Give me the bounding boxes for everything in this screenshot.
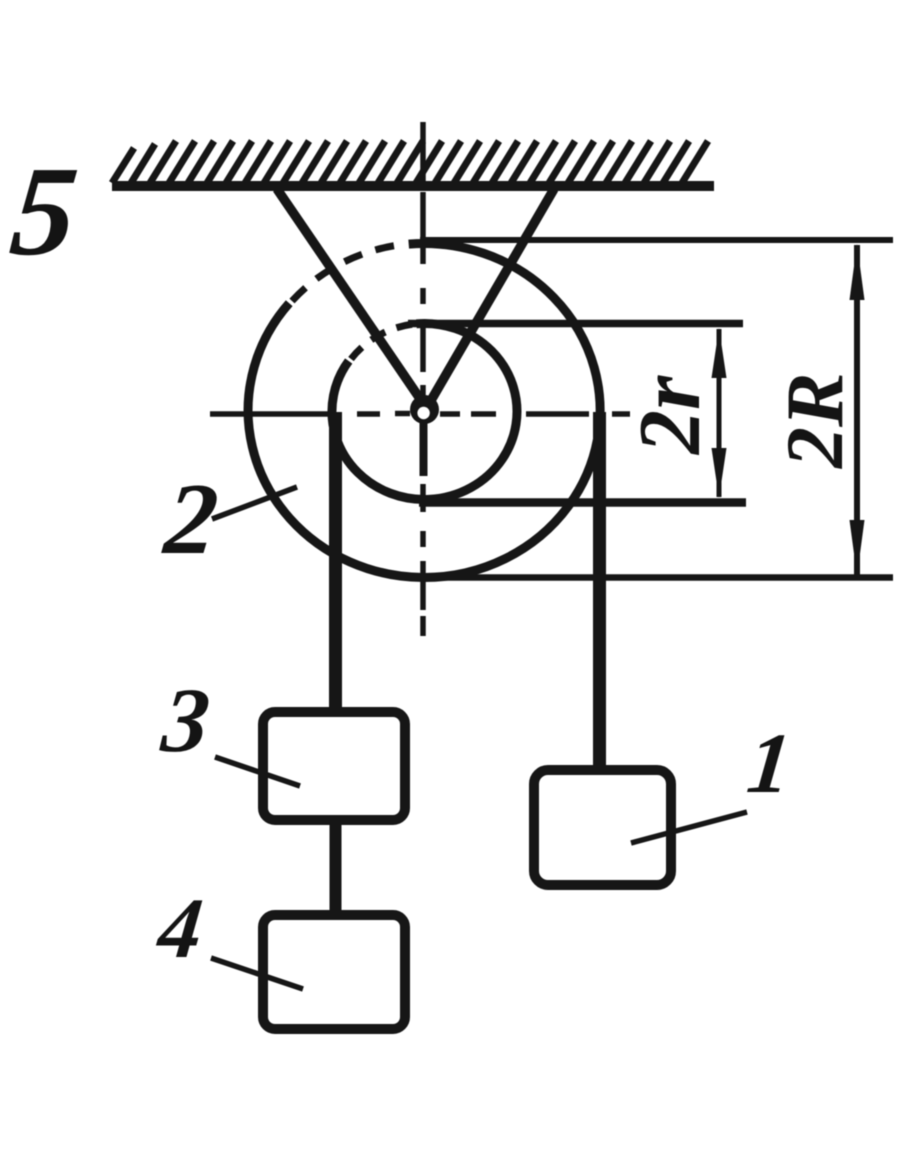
2r bottom extension line [419,498,746,507]
svg-text:2R: 2R [769,372,860,469]
leader line to block 4 [211,958,303,989]
pulley 2 outer rim dashed arc [292,244,405,301]
axle hub [410,395,439,424]
2R dimension arrow up [850,244,865,300]
2r dimension arrow up [712,328,727,378]
support bracket left leg [277,189,427,409]
2r dimension arrow down [712,448,727,498]
2r top extension line [408,320,743,328]
rope between block 3 and block 4 [330,817,342,918]
pulley 2 outer rim solid arc [248,243,600,577]
rope left from inner pulley to block 3 [329,412,342,716]
pulley inner rim solid arc [332,323,517,499]
block 4 [263,915,405,1029]
leader line to pulley 2 [212,487,297,519]
svg-text:2r: 2r [622,375,719,456]
vertical centerline [420,122,426,636]
2R dimension arrow down [850,520,865,576]
2R top extension line [420,237,893,243]
horizontal centerline [210,411,630,417]
ceiling line [112,181,714,191]
ceiling hatching [112,141,708,183]
rope right from outer pulley to block 1 [593,412,606,774]
block 1 [534,770,671,885]
pulley inner rim dashed arc [351,324,413,359]
leader line to block 3 [215,757,300,786]
block 3 [263,712,405,820]
2r dimension line [717,329,722,497]
leader line to block 1 [631,812,747,843]
2R bottom extension line [428,574,893,581]
support bracket right leg [426,189,554,409]
2R dimension line [854,245,860,575]
